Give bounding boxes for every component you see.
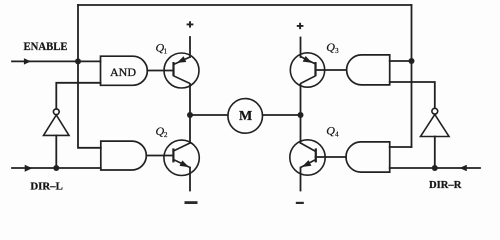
svg-text:Q2: Q2 bbox=[156, 124, 168, 139]
arrow DIR-L input bbox=[25, 165, 33, 172]
node motor right bbox=[298, 112, 304, 118]
wire ENABLE to lower-left AND gate bbox=[78, 61, 101, 147]
label + left supply bbox=[187, 21, 194, 27]
inverter left bbox=[44, 109, 70, 135]
and-gate U2 bbox=[101, 141, 147, 170]
svg-text:AND: AND bbox=[110, 65, 136, 79]
wire right inverter input bbox=[434, 137, 436, 169]
transistor Q1 (PNP) bbox=[164, 53, 199, 88]
transistor Q4 (NPN) bbox=[290, 140, 325, 175]
node DIR-L junction bbox=[53, 165, 59, 171]
wire right inverter output to AND3 bbox=[390, 82, 435, 108]
svg-text:Q4: Q4 bbox=[326, 124, 339, 139]
svg-text:Q3: Q3 bbox=[326, 40, 339, 55]
svg-text:Q1: Q1 bbox=[156, 41, 168, 56]
svg-text:DIR–R: DIR–R bbox=[429, 180, 462, 191]
arrow DIR-R input bbox=[459, 165, 466, 171]
wire top ENABLE rail bbox=[78, 4, 412, 6]
svg-text:ENABLE: ENABLE bbox=[24, 39, 68, 53]
wire AND3 top input bbox=[390, 60, 412, 62]
arrow ENABLE input bbox=[24, 58, 31, 64]
wire Q4 emitter to ground bbox=[300, 168, 302, 191]
wire DIR-L input line bbox=[12, 167, 101, 169]
transistor Q2 (NPN) bbox=[164, 140, 199, 175]
wire AND3 output to Q3 base bbox=[316, 69, 347, 71]
motor M bbox=[228, 99, 263, 134]
wire Q3 collector to motor node bbox=[300, 84, 302, 115]
wire AND4 top input bbox=[390, 146, 412, 148]
node DIR-R junction bbox=[432, 165, 438, 171]
wire Q1 emitter to + supply bbox=[189, 37, 191, 57]
wire Q2 emitter to ground bbox=[189, 168, 191, 191]
inverter right bbox=[421, 108, 450, 136]
node motor left bbox=[187, 112, 193, 118]
wire motor right lead bbox=[263, 114, 301, 116]
label + right supply bbox=[297, 23, 304, 29]
wire motor left lead bbox=[190, 114, 228, 116]
wire right riser from top rail bbox=[411, 5, 413, 147]
transistor Q3 (PNP) bbox=[290, 53, 324, 87]
wire Q4 collector to motor node bbox=[300, 115, 302, 143]
wire AND1 output to Q1 base bbox=[147, 70, 173, 72]
wire left inverter output to AND1 bbox=[56, 83, 100, 109]
wire Q3 emitter to + supply bbox=[300, 38, 302, 58]
svg-text:M: M bbox=[239, 109, 252, 124]
svg-text:DIR–L: DIR–L bbox=[30, 182, 63, 193]
wire AND2 output to Q2 base bbox=[146, 155, 173, 157]
wire left riser to top rail bbox=[77, 5, 79, 61]
node right enable junction bbox=[409, 58, 415, 64]
wire DIR-R input line bbox=[390, 167, 480, 169]
node ENABLE junction bbox=[75, 58, 81, 64]
and-gate U1 AND bbox=[101, 56, 148, 85]
wire ENABLE input line bbox=[12, 60, 101, 62]
and-gate U3 bbox=[347, 55, 390, 85]
wire AND4 output to Q4 base bbox=[316, 156, 347, 158]
wire left inverter input bbox=[55, 135, 57, 168]
wire Q2 collector to motor node bbox=[189, 115, 191, 143]
and-gate U4 bbox=[346, 142, 390, 172]
ground below Q4 bbox=[296, 202, 304, 205]
ground below Q2 bbox=[185, 201, 198, 204]
wire Q1 collector to motor node bbox=[189, 84, 191, 115]
